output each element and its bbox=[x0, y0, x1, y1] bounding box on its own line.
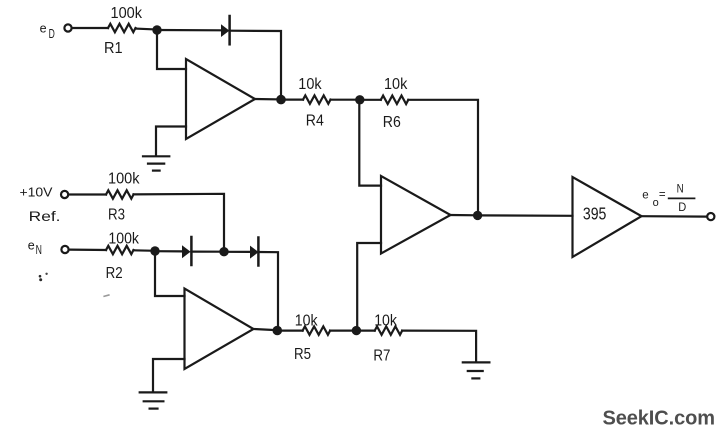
terminal eD bbox=[64, 24, 71, 31]
svg-text:SeekIC.com: SeekIC.com bbox=[603, 408, 715, 430]
wire U2 minus input bbox=[153, 359, 185, 392]
resistor R2 bbox=[106, 246, 134, 254]
svg-text:R3: R3 bbox=[108, 207, 125, 224]
wire N1 to op-amp + input bbox=[157, 30, 186, 69]
ground bbox=[143, 156, 169, 170]
svg-text:10k: 10k bbox=[384, 76, 408, 93]
svg-text:100k: 100k bbox=[108, 171, 140, 188]
wire 395 output bbox=[642, 215, 707, 218]
svg-text:Ref.: Ref. bbox=[29, 209, 61, 224]
label eD bbox=[40, 21, 55, 41]
node N7 bbox=[352, 326, 361, 335]
svg-text:10k: 10k bbox=[295, 313, 319, 330]
wire bbox=[277, 330, 302, 332]
node N4 bbox=[150, 246, 159, 255]
ground bbox=[140, 392, 167, 408]
svg-text:N: N bbox=[677, 184, 684, 196]
svg-text:R4: R4 bbox=[306, 113, 324, 130]
svg-text:D: D bbox=[49, 26, 55, 41]
wire bbox=[356, 330, 374, 332]
svg-text:=: = bbox=[659, 189, 666, 201]
node N1 bbox=[152, 25, 161, 34]
node N3 bbox=[355, 95, 364, 104]
svg-text:R1: R1 bbox=[104, 40, 123, 57]
wire N3 down to U3 + input bbox=[359, 100, 381, 186]
resistor R3 bbox=[106, 190, 134, 198]
wire bbox=[281, 98, 303, 100]
wire bbox=[136, 28, 158, 31]
scan smudge below R2 bbox=[103, 295, 109, 297]
scan speck group near eN bbox=[39, 273, 48, 282]
wire bbox=[360, 99, 381, 101]
wire U1 output bbox=[255, 98, 281, 101]
diode D3 bbox=[250, 238, 259, 266]
svg-text:e: e bbox=[642, 189, 648, 201]
wire bbox=[70, 249, 106, 252]
resistor R1 bbox=[108, 24, 136, 32]
svg-text:R5: R5 bbox=[294, 346, 311, 363]
wire bbox=[134, 249, 156, 252]
svg-text:R7: R7 bbox=[373, 347, 390, 364]
svg-text:e: e bbox=[40, 21, 47, 35]
ground bbox=[463, 362, 490, 378]
wire bbox=[69, 193, 106, 195]
svg-text:395: 395 bbox=[583, 204, 607, 224]
svg-text:10k: 10k bbox=[374, 313, 398, 330]
op-amp U2 bbox=[185, 289, 254, 370]
svg-text:+10V: +10V bbox=[20, 185, 53, 200]
wire diode row to feedback drop bbox=[258, 252, 278, 330]
resistor R6 bbox=[381, 96, 409, 104]
svg-text:D: D bbox=[678, 202, 686, 214]
terminal +10V bbox=[61, 191, 68, 198]
wire U1 minus input bbox=[156, 127, 186, 156]
svg-text:N: N bbox=[36, 242, 42, 257]
wire R6 to output node bbox=[408, 100, 478, 212]
wire bbox=[155, 250, 182, 252]
terminal eN bbox=[61, 246, 68, 253]
wire bbox=[73, 27, 108, 29]
wire bbox=[330, 330, 356, 332]
wire U3 output bbox=[451, 214, 478, 217]
diode D1 bbox=[221, 16, 230, 44]
svg-text:100k: 100k bbox=[108, 230, 139, 247]
diode D2 bbox=[182, 237, 191, 265]
label eN bbox=[28, 239, 42, 257]
node N5 bbox=[273, 326, 283, 336]
resistor R5 bbox=[303, 326, 331, 334]
wire bbox=[191, 251, 224, 253]
op-amp U3 bbox=[381, 176, 451, 254]
wire bbox=[230, 31, 281, 99]
svg-text:e: e bbox=[28, 239, 35, 253]
wire to 395 bbox=[478, 214, 573, 217]
output label eo = N/D bbox=[642, 184, 686, 214]
wire bbox=[157, 29, 221, 31]
node N2 bbox=[276, 95, 286, 105]
node N6 bbox=[473, 211, 482, 220]
wire R7 to ground bbox=[402, 331, 476, 362]
svg-text:10k: 10k bbox=[298, 76, 322, 93]
amplifier U4 (395) bbox=[573, 177, 642, 257]
resistor R4 bbox=[303, 95, 331, 103]
node N4b bbox=[219, 247, 228, 256]
svg-text:o: o bbox=[653, 197, 659, 209]
wire N4 down to U2 + input bbox=[155, 251, 185, 296]
wire U3 minus input bbox=[357, 243, 381, 331]
wire R3 to node N4b bbox=[134, 194, 225, 252]
wire U2 output bbox=[254, 329, 278, 330]
svg-text:100k: 100k bbox=[111, 5, 143, 22]
svg-text:R2: R2 bbox=[106, 265, 123, 282]
wire bbox=[224, 251, 250, 253]
terminal output bbox=[707, 213, 714, 220]
resistor R7 bbox=[375, 326, 403, 334]
op-amp U1 bbox=[186, 59, 255, 139]
svg-text:R6: R6 bbox=[383, 114, 401, 131]
fraction bar bbox=[668, 197, 696, 199]
wire bbox=[331, 99, 360, 101]
